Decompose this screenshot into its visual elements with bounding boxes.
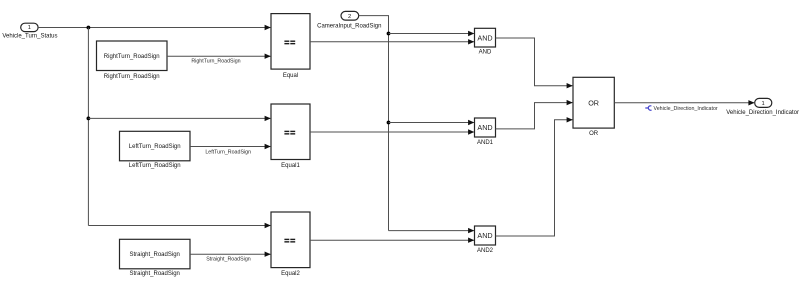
svg-text:AND: AND (477, 33, 492, 42)
wire OR out to outport (614, 100, 754, 105)
relational block Equal2 (271, 212, 310, 277)
svg-text:RightTurn_RoadSign: RightTurn_RoadSign (191, 59, 240, 65)
svg-text:Straight_RoadSign: Straight_RoadSign (130, 271, 180, 277)
relational block Equal (271, 14, 310, 79)
constant block RightTurn_RoadSign (97, 41, 168, 80)
wire Equal2 out to AND2 in2 (310, 238, 474, 243)
svg-text:RightTurn_RoadSign: RightTurn_RoadSign (104, 74, 160, 80)
svg-text:1: 1 (28, 25, 31, 31)
logic block AND2 (475, 226, 496, 254)
logic block OR (573, 77, 614, 137)
svg-text:Equal: Equal (283, 73, 298, 79)
svg-text:Straight_RoadSign: Straight_RoadSign (206, 256, 251, 262)
wire elbow to Equal2 in1 (88, 223, 270, 228)
wire AND1 out to OR in2 (496, 100, 573, 129)
constant block Straight_RoadSign (120, 239, 191, 277)
node junction C (camera bus y33.5) (387, 32, 391, 36)
svg-text:AND: AND (477, 231, 492, 240)
svg-text:RightTurn_RoadSign: RightTurn_RoadSign (104, 54, 160, 60)
svg-text:LeftTurn_RoadSign: LeftTurn_RoadSign (205, 150, 251, 156)
svg-text:Equal1: Equal1 (281, 163, 300, 169)
wire Straight_RoadSign to Equal2 in2 (190, 252, 271, 263)
svg-text:Vehicle_Direction_Indicator: Vehicle_Direction_Indicator (654, 106, 718, 112)
svg-text:CameraInput_RoadSign: CameraInput_RoadSign (317, 23, 381, 29)
svg-text:LeftTurn_RoadSign: LeftTurn_RoadSign (129, 144, 181, 150)
wire Equal1 out to AND1 in2 (310, 129, 474, 134)
svg-text:AND: AND (477, 123, 492, 132)
relational block Equal1 (271, 104, 310, 169)
svg-text:OR: OR (588, 98, 599, 107)
svg-text:1: 1 (761, 101, 764, 107)
wire vertical bus from junction A down (87, 28, 89, 226)
wire AND out to OR in1 (496, 38, 573, 88)
node junction D (camera bus y122.6) (387, 121, 391, 125)
svg-text:Equal2: Equal2 (281, 271, 300, 277)
node junction A (x88 on inport wire) (87, 26, 91, 30)
svg-text:AND: AND (479, 50, 492, 56)
logic block AND1 (475, 118, 496, 146)
wire junction B to Equal1 in1 (88, 116, 270, 121)
logic block AND (475, 28, 496, 55)
node junction B (x88 y118) (87, 117, 91, 121)
wire junction C to AND in1 (389, 31, 475, 36)
inport 2 CameraInput_RoadSign (317, 11, 381, 29)
outport 1 Vehicle_Direction_Indicator (726, 98, 799, 116)
wire Equal out to AND in2 (310, 39, 474, 44)
svg-text:AND2: AND2 (477, 248, 494, 254)
wire LeftTurn_RoadSign to Equal1 in2 (190, 144, 271, 156)
svg-text:LeftTurn_RoadSign: LeftTurn_RoadSign (129, 163, 181, 169)
wire AND2 out to OR in3 (496, 117, 573, 236)
svg-text:AND1: AND1 (477, 140, 494, 146)
wire camera bus elbow to AND2 in1 (389, 228, 475, 233)
svg-text:Vehicle_Direction_Indicator: Vehicle_Direction_Indicator (726, 110, 799, 116)
svg-text:2: 2 (348, 14, 351, 20)
wire junction D to AND1 in1 (389, 120, 475, 125)
wire RightTurn_RoadSign to Equal in2 (167, 54, 271, 65)
signal log badge (blue) (645, 106, 651, 110)
wire inport1 to Equal in1 (38, 25, 271, 30)
constant block LeftTurn_RoadSign (120, 131, 191, 169)
inport 1 Vehicle_Turn_Status (2, 23, 57, 39)
svg-text:Straight_RoadSign: Straight_RoadSign (130, 252, 180, 258)
svg-text:OR: OR (589, 131, 599, 137)
svg-text:Vehicle_Turn_Status: Vehicle_Turn_Status (2, 34, 57, 40)
wire inport2 to vertical camera bus (359, 16, 389, 231)
